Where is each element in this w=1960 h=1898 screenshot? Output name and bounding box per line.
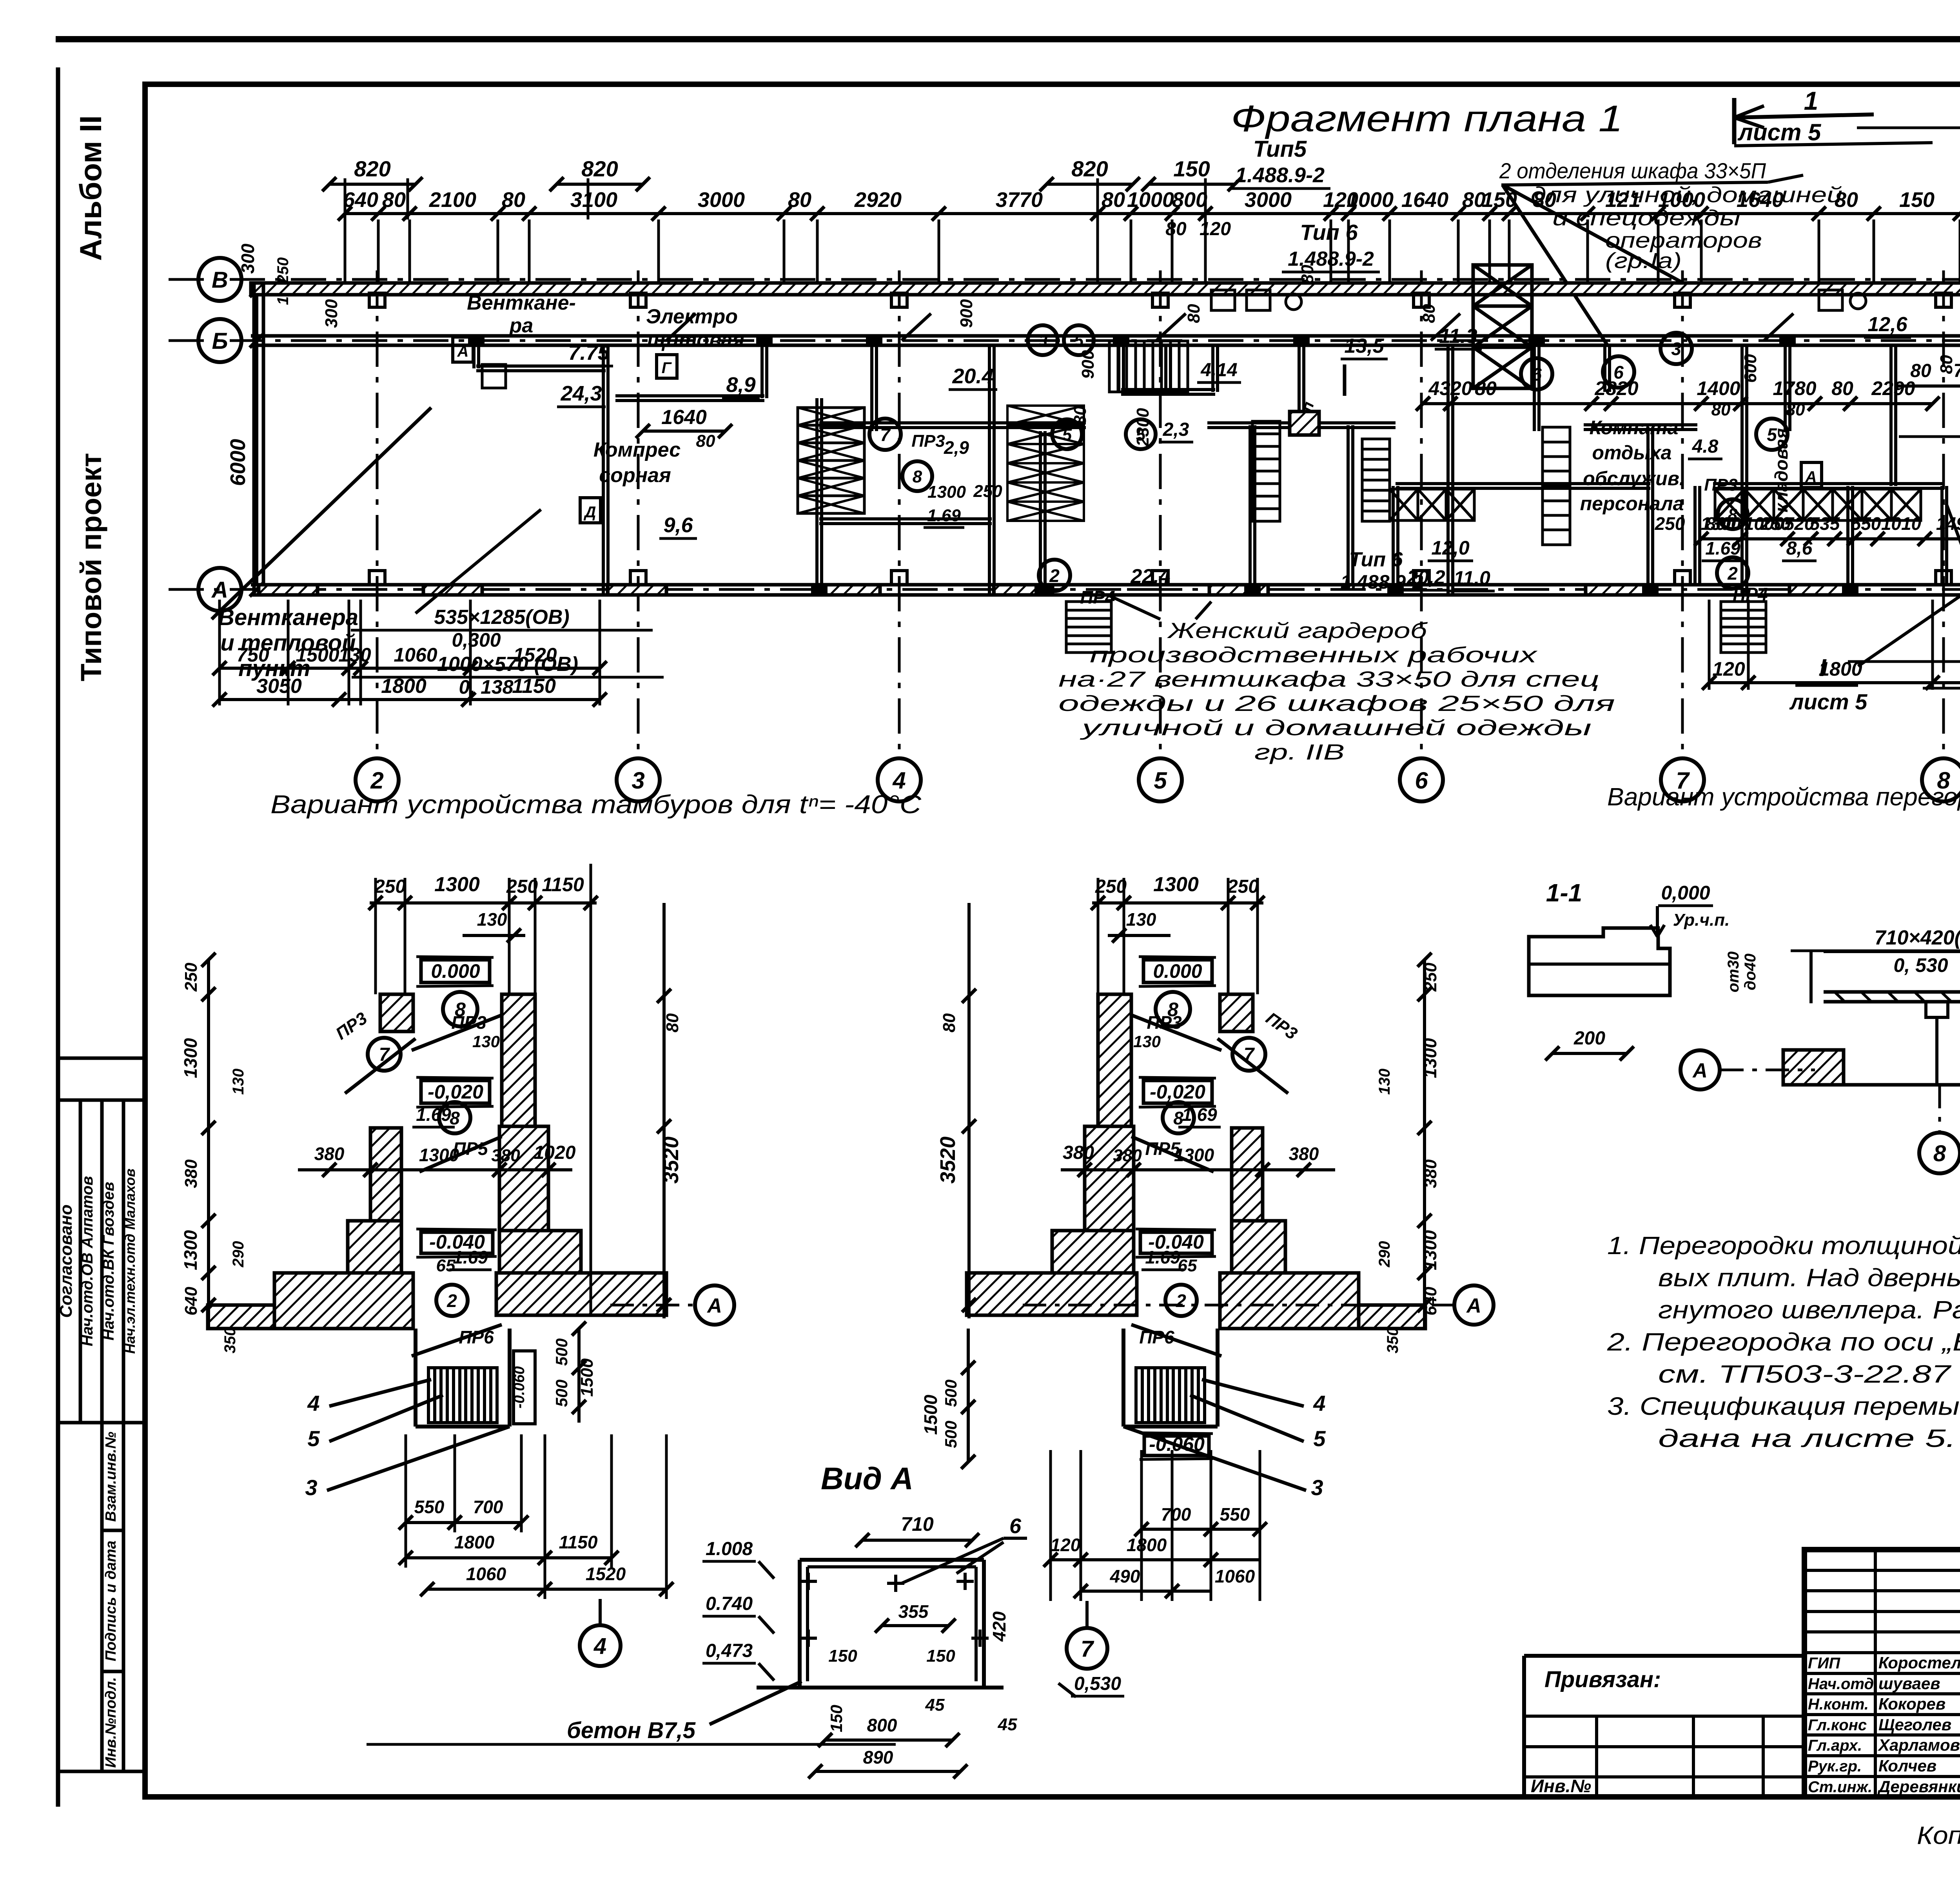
- svg-text:Женский гардероб: Женский гардероб: [1167, 618, 1428, 643]
- title block main frame: [1804, 1550, 1960, 1797]
- svg-text:1150: 1150: [559, 1532, 598, 1552]
- Vid A dims: [862, 1539, 972, 1542]
- axis B dash-dot: [169, 339, 1960, 342]
- svg-text:500: 500: [552, 1380, 571, 1407]
- section axes circles 8 9 10: [1938, 1085, 1941, 1133]
- svg-text:до40: до40: [1742, 954, 1759, 990]
- svg-text:-0.060: -0.060: [1149, 1433, 1205, 1455]
- svg-text:0,473: 0,473: [706, 1641, 753, 1661]
- svg-text:0.000: 0.000: [1153, 960, 1202, 982]
- svg-text:Копировал: Аля-: Копировал: Аля-: [1917, 1821, 1960, 1849]
- svg-text:200: 200: [1573, 1028, 1605, 1049]
- svg-text:130: 130: [477, 909, 507, 930]
- svg-text:ПР3: ПР3: [451, 1012, 486, 1033]
- svg-text:ра: ра: [509, 314, 534, 337]
- svg-text:550: 550: [414, 1497, 445, 1517]
- svg-text:на·27 вентшкафа 33×50 для спец: на·27 вентшкафа 33×50 для спец: [1058, 667, 1599, 691]
- svg-text:3: 3: [1311, 1475, 1323, 1500]
- section 1-1 axis circle A: [1720, 1069, 1815, 1071]
- svg-text:710: 710: [901, 1513, 934, 1535]
- svg-text:Нач.эл.техн.отд Малахов: Нач.эл.техн.отд Малахов: [122, 1169, 138, 1354]
- svg-text:820: 820: [581, 156, 618, 181]
- svg-text:Н.конт.: Н.конт.: [1808, 1696, 1869, 1713]
- svg-text:22,4: 22,4: [1130, 565, 1170, 588]
- svg-text:640: 640: [181, 1287, 201, 1316]
- svg-text:900: 900: [957, 299, 976, 328]
- svg-text:1300: 1300: [1420, 1230, 1440, 1270]
- svg-text:250: 250: [1095, 876, 1127, 897]
- svg-text:1.69: 1.69: [927, 506, 961, 525]
- svg-text:130: 130: [1133, 1032, 1161, 1051]
- svg-text:1520: 1520: [513, 644, 557, 666]
- witness lines below plan center dims: [1708, 600, 1711, 690]
- svg-text:Харламов: Харламов: [1878, 1736, 1960, 1754]
- svg-text:лист 5: лист 5: [1737, 119, 1822, 145]
- svg-text:1500: 1500: [577, 1358, 597, 1397]
- svg-text:1150: 1150: [542, 874, 584, 896]
- sidebar approval table: [59, 1057, 145, 1060]
- svg-text:2920: 2920: [854, 188, 902, 212]
- svg-text:80: 80: [788, 188, 811, 212]
- svg-text:1.69: 1.69: [1145, 1247, 1180, 1267]
- svg-text:710×420(ОВ): 710×420(ОВ): [1875, 926, 1960, 949]
- svg-text:5: 5: [1074, 331, 1084, 350]
- svg-text:300: 300: [322, 299, 341, 328]
- svg-text:380: 380: [1063, 1142, 1094, 1163]
- svg-text:250: 250: [973, 482, 1002, 501]
- svg-text:1.488.9-2: 1.488.9-2: [1235, 163, 1325, 187]
- svg-text:800: 800: [1706, 513, 1736, 534]
- svg-text:Кокорев: Кокорев: [1878, 1695, 1945, 1713]
- svg-text:А: А: [211, 577, 228, 603]
- svg-text:80: 80: [382, 188, 406, 212]
- wall axis B double: [251, 334, 1960, 338]
- svg-text:1150: 1150: [512, 675, 556, 698]
- svg-text:1300: 1300: [180, 1230, 201, 1270]
- svg-text:Рук.гр.: Рук.гр.: [1808, 1758, 1862, 1775]
- svg-text:1800: 1800: [1127, 1535, 1167, 1555]
- svg-text:вых плит. Над дверными проемам: вых плит. Над дверными проемами устанавл…: [1658, 1264, 1960, 1292]
- svg-text:1780: 1780: [1773, 377, 1816, 399]
- left end wall: [252, 284, 256, 595]
- svg-text:Нач.отд: Нач.отд: [1808, 1675, 1874, 1693]
- svg-text:1000: 1000: [1127, 188, 1174, 212]
- title block staff grid: [1804, 1569, 1960, 1572]
- svg-text:80: 80: [1102, 188, 1125, 212]
- svg-text:Инв.№подл.: Инв.№подл.: [103, 1677, 119, 1767]
- svg-text:500: 500: [942, 1421, 960, 1448]
- svg-text:45: 45: [998, 1715, 1017, 1734]
- svg-text:-0,020: -0,020: [428, 1081, 483, 1103]
- svg-text:130: 130: [338, 644, 371, 666]
- svg-text:ГИП: ГИП: [1808, 1655, 1840, 1672]
- svg-text:700: 700: [1161, 1504, 1191, 1525]
- svg-text:2: 2: [1176, 1291, 1186, 1311]
- svg-text:1000: 1000: [1347, 188, 1394, 212]
- svg-text:80: 80: [1831, 377, 1853, 399]
- svg-text:ПР6: ПР6: [1139, 1327, 1174, 1347]
- svg-text:1-1: 1-1: [1546, 879, 1583, 907]
- svg-text:80: 80: [1711, 400, 1731, 419]
- svg-text:8: 8: [450, 1108, 460, 1128]
- interior partitions horizontal: [476, 364, 606, 368]
- svg-text:121: 121: [1605, 188, 1641, 212]
- svg-text:600: 600: [1741, 354, 1760, 383]
- center bottom dim row: [1709, 681, 1960, 684]
- svg-text:Ст.инж.: Ст.инж.: [1808, 1778, 1872, 1796]
- svg-text:Нач.отд.ОВ Алпатов: Нач.отд.ОВ Алпатов: [79, 1176, 96, 1347]
- svg-text:1300: 1300: [1153, 873, 1199, 896]
- svg-text:380: 380: [1113, 1146, 1142, 1165]
- svg-text:Типовой проект: Типовой проект: [75, 453, 107, 681]
- svg-text:80: 80: [663, 1013, 682, 1032]
- witness lines below plan left dims: [218, 600, 221, 705]
- svg-text:Нач.отд.ВК Гвоздев: Нач.отд.ВК Гвоздев: [100, 1182, 117, 1340]
- svg-text:640: 640: [343, 188, 378, 212]
- svg-text:80: 80: [502, 188, 525, 212]
- svg-text:1640: 1640: [1401, 188, 1448, 212]
- interior dim row y1016: [1423, 402, 1933, 405]
- svg-text:80: 80: [1835, 188, 1858, 212]
- svg-text:2300: 2300: [1133, 408, 1152, 447]
- svg-text:3520: 3520: [659, 1137, 683, 1184]
- svg-text:4: 4: [1313, 1391, 1325, 1416]
- svg-text:Электро: Электро: [646, 305, 738, 328]
- svg-text:Гл.конс: Гл.конс: [1808, 1717, 1867, 1734]
- svg-text:Комната: Комната: [1590, 417, 1679, 439]
- privyazan table: [1524, 1654, 1804, 1658]
- svg-text:2. Перегородка по оси „В“ в: 2. Перегородка по оси „В“ в осях „2÷9“ с…: [1607, 1328, 1960, 1356]
- svg-text:шуваев: шуваев: [1878, 1674, 1940, 1693]
- svg-text:ПР3: ПР3: [1147, 1012, 1182, 1033]
- svg-text:одежды и 26 шкафов 25×50 для: одежды и 26 шкафов 25×50 для: [1058, 691, 1615, 716]
- svg-text:1. Перегородки толщиной 80мм: 1. Перегородки толщиной 80мм., в осях А÷…: [1607, 1231, 1960, 1260]
- svg-text:В: В: [212, 267, 228, 293]
- grid circle 7: [1661, 758, 1704, 801]
- svg-text:380: 380: [1421, 1159, 1440, 1188]
- svg-text:0.740: 0.740: [706, 1593, 753, 1614]
- svg-text:80: 80: [1165, 219, 1187, 239]
- svg-text:персонала: персонала: [1580, 493, 1684, 515]
- svg-text:1.69: 1.69: [453, 1247, 488, 1267]
- left bottom dim rows: [220, 667, 600, 670]
- svg-text:Компрес: Компрес: [593, 439, 681, 461]
- svg-text:6: 6: [1415, 767, 1428, 794]
- svg-text:130: 130: [230, 1069, 247, 1095]
- svg-text:3. Спецификация перемычек, д: 3. Спецификация перемычек, дверей и стал…: [1607, 1392, 1960, 1420]
- svg-text:1520: 1520: [586, 1564, 626, 1584]
- ladder comb 2: [1252, 421, 1280, 521]
- grid circle 2: [356, 758, 399, 801]
- svg-text:Вариант устройства перегородки: Вариант устройства перегородки венткамер…: [1607, 783, 1960, 811]
- svg-text:Тип5: Тип5: [1253, 136, 1307, 162]
- svg-text:см. ТП503-3-22.87 КЖ, лист: см. ТП503-3-22.87 КЖ, лист 12: [1658, 1360, 1960, 1388]
- grid circle B: [198, 319, 241, 362]
- svg-text:щитовая: щитовая: [647, 329, 744, 352]
- svg-text:1000: 1000: [1658, 188, 1705, 212]
- svg-text:150: 150: [1899, 188, 1935, 212]
- grid circle 3: [617, 758, 660, 801]
- sheet outer border left: [56, 67, 60, 1807]
- svg-text:гнутого швеллера. Расход швелл: гнутого швеллера. Расход швеллера см. сп…: [1658, 1296, 1960, 1324]
- svg-text:5: 5: [307, 1426, 320, 1451]
- svg-text:3: 3: [1038, 331, 1047, 350]
- svg-text:2: 2: [446, 1291, 457, 1311]
- svg-text:250: 250: [1655, 513, 1685, 534]
- svg-text:Б: Б: [212, 328, 228, 354]
- svg-text:1.69: 1.69: [1182, 1104, 1217, 1125]
- grid circle A: [198, 568, 241, 611]
- svg-text:сорная: сорная: [599, 464, 671, 487]
- svg-text:Щеголев: Щеголев: [1878, 1715, 1951, 1734]
- svg-text:Вариант устройства тамбуров: Вариант устройства тамбуров для tⁿ= -40°…: [270, 790, 922, 819]
- svg-text:3000: 3000: [698, 188, 745, 212]
- crosshatch shaft 1: [798, 408, 864, 513]
- svg-text:250: 250: [1421, 963, 1440, 992]
- svg-text:2290: 2290: [1871, 377, 1915, 399]
- svg-text:3: 3: [1671, 339, 1681, 359]
- svg-text:250: 250: [181, 963, 201, 992]
- svg-text:0,000: 0,000: [1661, 882, 1710, 904]
- svg-text:350: 350: [1384, 1327, 1401, 1354]
- svg-text:250: 250: [374, 876, 406, 897]
- svg-text:1300: 1300: [180, 1038, 201, 1078]
- svg-text:7: 7: [1081, 1636, 1094, 1662]
- svg-text:А: А: [1692, 1059, 1708, 1082]
- svg-text:12,0: 12,0: [1431, 537, 1470, 559]
- svg-text:0, 530: 0, 530: [1893, 954, 1948, 976]
- svg-text:550: 550: [1851, 513, 1881, 534]
- svg-text:800: 800: [867, 1715, 897, 1735]
- svg-text:3520: 3520: [936, 1137, 960, 1184]
- axis V dash-dot: [169, 278, 1960, 281]
- svg-text:45: 45: [925, 1695, 945, 1715]
- small callouts middle-left: [869, 419, 901, 450]
- svg-text:2 отделения шкафа 33×5П: 2 отделения шкафа 33×5П: [1499, 158, 1766, 183]
- witness lines above plan: [344, 219, 347, 284]
- svg-text:150: 150: [828, 1646, 857, 1666]
- svg-text:Тип 6: Тип 6: [1349, 548, 1403, 571]
- svg-text:0.000: 0.000: [431, 960, 480, 982]
- svg-text:80: 80: [1786, 400, 1805, 419]
- svg-text:490: 490: [1110, 1566, 1140, 1586]
- svg-text:1010: 1010: [1881, 513, 1922, 534]
- svg-text:500: 500: [552, 1338, 571, 1366]
- svg-text:3770: 3770: [996, 188, 1043, 212]
- svg-text:3: 3: [305, 1475, 317, 1500]
- svg-text:Привязан:: Привязан:: [1544, 1667, 1661, 1692]
- svg-text:80: 80: [1298, 265, 1317, 284]
- bottom exterior wall: [251, 583, 1960, 587]
- svg-text:130: 130: [1126, 909, 1156, 930]
- svg-text:Согласовано: Согласовано: [56, 1204, 76, 1318]
- svg-text:1060: 1060: [466, 1564, 506, 1584]
- PR4 grille 2: [1721, 602, 1766, 653]
- svg-text:7.75: 7.75: [568, 341, 610, 364]
- svg-text:1800: 1800: [454, 1532, 495, 1552]
- svg-text:290: 290: [230, 1241, 247, 1268]
- svg-text:1020: 1020: [534, 1142, 576, 1163]
- svg-text:900: 900: [1078, 350, 1098, 379]
- svg-text:535×1285(ОВ): 535×1285(ОВ): [434, 606, 569, 629]
- svg-text:820: 820: [1071, 156, 1108, 181]
- svg-text:отдыха: отдыха: [1592, 442, 1672, 464]
- svg-text:4: 4: [593, 1633, 606, 1659]
- svg-text:Гл.арх.: Гл.арх.: [1808, 1737, 1862, 1754]
- svg-text:Д: Д: [584, 504, 596, 521]
- svg-text:0,530: 0,530: [1074, 1673, 1121, 1694]
- svg-text:8: 8: [1173, 1108, 1183, 1128]
- svg-text:1060: 1060: [394, 644, 437, 666]
- section 1-1 long part: [1824, 950, 1960, 953]
- detail2 grille and -0.060: [1144, 1436, 1209, 1456]
- svg-text:Коростелев: Коростелев: [1878, 1653, 1960, 1672]
- svg-text:820: 820: [354, 156, 390, 181]
- svg-text:11.0: 11.0: [1454, 567, 1490, 589]
- svg-text:обслужив.: обслужив.: [1583, 468, 1685, 489]
- svg-text:8: 8: [1933, 1141, 1946, 1166]
- svg-text:3100: 3100: [570, 188, 617, 212]
- crosshatch shaft 2: [1007, 406, 1084, 425]
- svg-text:65: 65: [1178, 1256, 1197, 1275]
- svg-text:24,3: 24,3: [560, 382, 602, 405]
- svg-text:290: 290: [1376, 1241, 1393, 1268]
- svg-text:Венткане-: Венткане-: [467, 292, 576, 314]
- svg-text:380: 380: [1289, 1144, 1319, 1164]
- svg-text:от30: от30: [1725, 952, 1742, 993]
- grid circle 6: [1400, 758, 1443, 801]
- svg-text:4.8: 4.8: [1692, 436, 1719, 457]
- axis A dash-dot: [169, 588, 1960, 591]
- locker row 1: [1390, 489, 1418, 520]
- svg-text:1300: 1300: [419, 1145, 459, 1165]
- svg-text:1000: 1000: [1744, 513, 1784, 534]
- detail1 bottom dims: [406, 1521, 521, 1524]
- tambour detail 1: [370, 901, 597, 905]
- bottom wall hatched piers: [259, 585, 318, 595]
- svg-text:535: 535: [1810, 513, 1840, 534]
- svg-text:1640: 1640: [1737, 188, 1784, 212]
- svg-text:700: 700: [473, 1497, 503, 1517]
- svg-text:-0,020: -0,020: [1150, 1081, 1205, 1103]
- top exterior wall: [251, 283, 1960, 295]
- svg-text:Инв.№: Инв.№: [1531, 1776, 1591, 1796]
- svg-text:3050: 3050: [256, 675, 302, 698]
- svg-text:9,6: 9,6: [663, 513, 693, 537]
- svg-text:1400: 1400: [1697, 377, 1740, 399]
- svg-text:80: 80: [1475, 377, 1497, 399]
- svg-text:Подпись и дата: Подпись и дата: [103, 1541, 119, 1661]
- top wall pier marks: [369, 293, 385, 307]
- svg-text:1800: 1800: [381, 675, 426, 698]
- svg-text:ПР3: ПР3: [1704, 475, 1737, 495]
- svg-text:80: 80: [940, 1013, 959, 1032]
- svg-text:20,2: 20,2: [1406, 566, 1445, 588]
- svg-text:Вид А: Вид А: [821, 1461, 913, 1496]
- svg-text:150: 150: [1173, 156, 1210, 181]
- svg-text:0, 138: 0, 138: [459, 676, 513, 698]
- svg-text:380: 380: [314, 1144, 345, 1164]
- column axes 2-10: [376, 270, 379, 756]
- svg-text:-0.060: -0.060: [511, 1366, 528, 1409]
- sidebar inventory table: [100, 1423, 104, 1771]
- labels middle: [1028, 325, 1058, 355]
- svg-text:1.69: 1.69: [1705, 538, 1740, 558]
- svg-text:150: 150: [1482, 188, 1517, 212]
- tambour detail 2: [1092, 901, 1263, 905]
- grid circle V: [198, 258, 241, 301]
- svg-text:1500: 1500: [920, 1394, 941, 1435]
- svg-text:производственных рабочих: производственных рабочих: [1090, 642, 1538, 667]
- ladder comb 1: [1109, 341, 1188, 392]
- svg-text:А: А: [706, 1294, 722, 1317]
- svg-text:65: 65: [436, 1256, 456, 1275]
- svg-text:800: 800: [1172, 188, 1207, 212]
- Vid A figure: [800, 1558, 984, 1562]
- svg-text:2820: 2820: [1594, 377, 1638, 399]
- svg-text:А: А: [1466, 1294, 1481, 1317]
- svg-text:Фрагмент плана 1: Фрагмент плана 1: [1231, 98, 1623, 140]
- svg-text:120: 120: [1051, 1535, 1081, 1555]
- svg-text:Колчев: Колчев: [1878, 1757, 1936, 1775]
- interior partitions vertical: [472, 345, 475, 368]
- svg-text:8: 8: [913, 467, 922, 486]
- detail1 right lower chain: [577, 1329, 581, 1423]
- svg-text:2,9: 2,9: [944, 437, 969, 458]
- svg-text:500: 500: [942, 1380, 960, 1407]
- wall junction squares: [470, 336, 483, 345]
- svg-text:80: 80: [1533, 188, 1556, 212]
- top dimension main row: [345, 212, 1960, 215]
- svg-text:Г: Г: [662, 359, 672, 377]
- svg-text:6000: 6000: [226, 439, 250, 486]
- svg-text:6: 6: [1009, 1514, 1022, 1538]
- svg-text:640: 640: [1421, 1287, 1440, 1316]
- svg-text:1.008: 1.008: [706, 1539, 753, 1559]
- svg-text:2100: 2100: [429, 188, 476, 212]
- PR4 grille 1: [1066, 602, 1111, 653]
- svg-text:20.4: 20.4: [952, 364, 993, 388]
- svg-text:300: 300: [238, 243, 258, 274]
- svg-text:1060: 1060: [1215, 1566, 1255, 1586]
- svg-text:890: 890: [863, 1747, 893, 1767]
- svg-text:2: 2: [1049, 566, 1060, 586]
- svg-text:1300: 1300: [1174, 1145, 1214, 1165]
- svg-text:Вентканера: Вентканера: [218, 605, 358, 630]
- svg-text:кладовая: кладовая: [1771, 428, 1791, 512]
- svg-text:ПР3: ПР3: [911, 431, 945, 451]
- svg-text:дана на листе 5.: дана на листе 5.: [1658, 1424, 1956, 1452]
- svg-text:13,5: 13,5: [1344, 335, 1384, 357]
- svg-text:уличной и домашней одежды: уличной и домашней одежды: [1079, 715, 1592, 740]
- svg-text:4: 4: [307, 1391, 319, 1416]
- svg-text:1.69: 1.69: [416, 1104, 451, 1125]
- svg-text:380: 380: [181, 1159, 201, 1188]
- svg-text:11.3: 11.3: [1439, 325, 1477, 348]
- svg-text:150: 150: [926, 1646, 955, 1666]
- svg-text:1300: 1300: [927, 482, 966, 502]
- svg-text:80: 80: [1184, 304, 1203, 323]
- grid circle 4: [878, 758, 921, 801]
- svg-text:1: 1: [1804, 86, 1818, 115]
- bottom wall interior dim row: [1701, 537, 1960, 540]
- svg-text:420: 420: [989, 1611, 1009, 1642]
- svg-text:1500: 1500: [296, 644, 339, 666]
- svg-text:1000×570 (ОВ): 1000×570 (ОВ): [437, 653, 578, 676]
- svg-text:150: 150: [827, 1705, 846, 1732]
- svg-text:130: 130: [1376, 1069, 1393, 1095]
- sheet outer border top: [56, 36, 1960, 42]
